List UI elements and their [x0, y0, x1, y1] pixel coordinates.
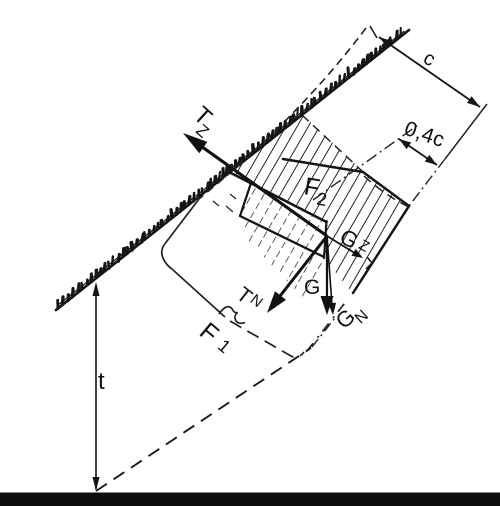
svg-text:t: t: [98, 368, 105, 395]
svg-text:G: G: [304, 276, 320, 299]
